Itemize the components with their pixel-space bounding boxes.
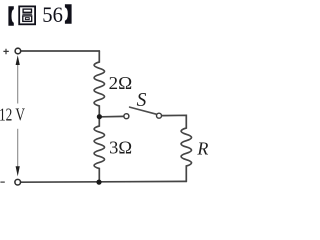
svg-text:R: R <box>196 139 208 159</box>
svg-text:2Ω: 2Ω <box>109 73 133 93</box>
svg-text:3Ω: 3Ω <box>109 138 132 158</box>
svg-text:12 V: 12 V <box>0 105 25 125</box>
svg-text:S: S <box>137 90 147 111</box>
svg-text:56: 56 <box>42 2 63 27</box>
